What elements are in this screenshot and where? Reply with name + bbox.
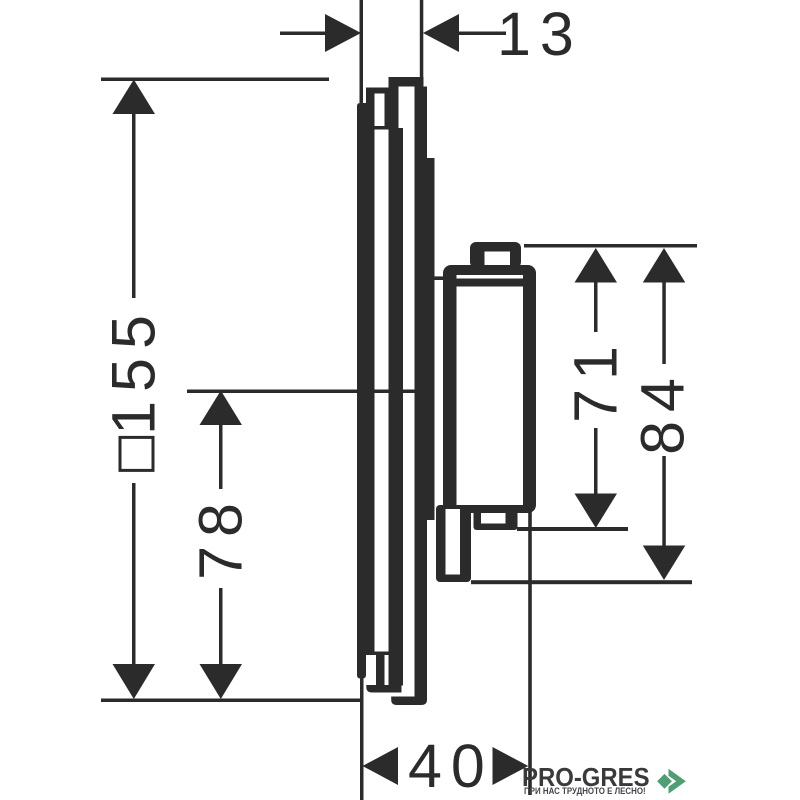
extension line 13 left (vertical, from top edge): [360, 0, 364, 103]
handle body outer: [443, 265, 536, 513]
dimension 78 top arrowhead: [200, 391, 243, 426]
handle body cap seam sliver: [457, 275, 524, 279]
logo wordmark PRO-GRES: [522, 762, 650, 793]
handle body interior: [457, 287, 524, 506]
plate (escutcheon) side face: [357, 103, 366, 679]
dimension 13 right arrow line: [459, 32, 506, 36]
basic-set body left border lower widening: [396, 128, 403, 686]
extension line 78 top (horizontal at plate centre): [187, 390, 416, 394]
label square 155 (rotated): [104, 306, 165, 472]
basic-set right border (bar3): [415, 87, 428, 697]
dimension 71 bottom arrowhead: [575, 494, 618, 529]
logo green diamond: [645, 766, 685, 800]
extension line 84 bottom (horizontal): [471, 580, 692, 584]
dimension 71 line lower segment: [594, 428, 598, 495]
label 13: [497, 4, 583, 65]
dimension 13 right arrowhead: [423, 14, 459, 52]
carrier top-right border stub: [385, 94, 389, 130]
extension line 71 bottom (horizontal): [517, 527, 628, 531]
carrier top slot closing line: [375, 126, 389, 130]
handle top button hole: [485, 252, 511, 266]
handle top button outer: [470, 242, 521, 268]
dimension 78 line upper segment: [219, 425, 223, 489]
carrier bottom bar: [366, 685, 401, 693]
carrier plate left border: [366, 88, 375, 652]
extension line 155 top (horizontal): [101, 78, 329, 82]
valve foot outer: [436, 505, 471, 582]
dimension 13 left arrow line: [280, 32, 325, 36]
basic-set rear flange strip: [427, 158, 435, 520]
dimension 84 line upper segment: [662, 282, 666, 364]
dimension 155 top arrowhead: [113, 80, 156, 115]
carrier bottom slot top line: [358, 652, 389, 656]
logo green chevron: [658, 760, 698, 800]
dimension 155 line upper segment: [132, 112, 136, 298]
dimension 13 left arrowhead: [325, 14, 361, 52]
handle bottom step hole: [481, 513, 506, 524]
flange-to-handle top edge: [427, 276, 447, 280]
label 71 (rotated): [566, 337, 627, 423]
carrier bottom slot right border: [376, 652, 385, 686]
basic-set body left border (bar2): [389, 87, 399, 686]
basic-set bottom bar: [391, 697, 427, 706]
extension line 71/84 top (horizontal from knob top): [524, 244, 697, 248]
valve foot interior: [446, 509, 461, 575]
handle bottom step outer: [474, 505, 518, 530]
dimension 84 bottom arrowhead: [643, 546, 686, 581]
label 84 (rotated): [633, 369, 694, 455]
dimension 71 top arrowhead: [575, 248, 618, 283]
extension line 13 right (vertical, from top edge): [420, 0, 424, 77]
basic-set top bar: [389, 77, 424, 87]
label 78 (rotated): [191, 494, 252, 580]
carrier plate top bar: [366, 88, 389, 94]
dimension 40 right arrowhead: [493, 747, 529, 785]
dimension 155 bottom arrowhead: [113, 664, 156, 699]
extension line 40 right (vertical from knob face to logo): [528, 505, 532, 795]
dimension 155 line lower segment: [132, 483, 136, 668]
label 40: [408, 736, 494, 797]
extension line 40 left (vertical below plate): [360, 678, 364, 800]
dimension 71 line upper segment: [594, 282, 598, 332]
dimension 40 left arrowhead: [363, 747, 399, 785]
dimension 78 line lower segment: [219, 588, 223, 668]
dimension 84 line lower segment: [662, 456, 666, 548]
dimension 78 bottom arrowhead: [200, 664, 243, 699]
dimension 84 top arrowhead: [643, 248, 686, 283]
extension line 155/78 bottom (horizontal): [101, 699, 361, 703]
logo tagline: [524, 786, 646, 796]
